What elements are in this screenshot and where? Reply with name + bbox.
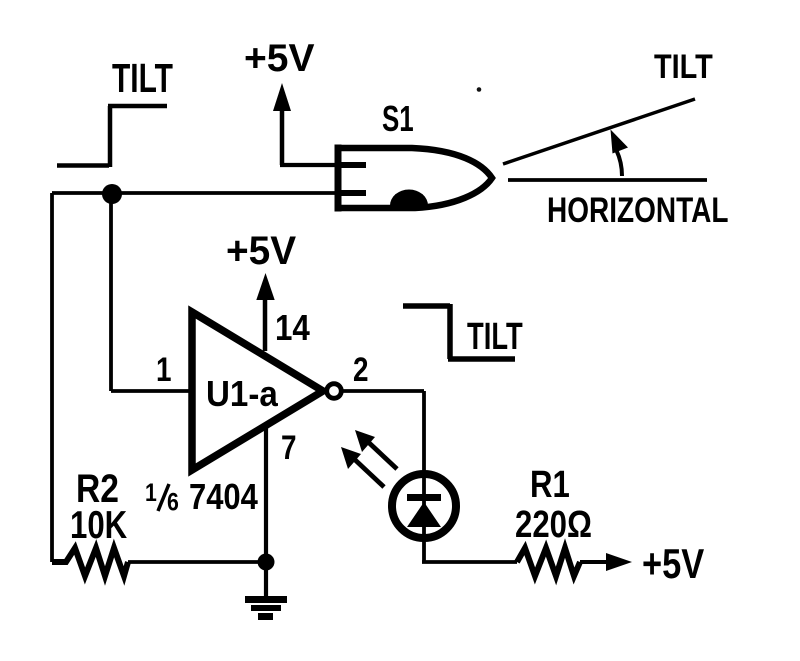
svg-text:TILT: TILT <box>467 316 523 358</box>
label TILT (rising waveform) <box>112 55 173 101</box>
ink speck <box>477 87 482 92</box>
svg-text:2: 2 <box>353 350 369 388</box>
label 1/6 7404 <box>145 478 258 518</box>
label +5V (right) <box>642 541 705 588</box>
horizontal reference line <box>508 178 707 182</box>
label TILT (angle) <box>654 47 713 86</box>
junction dot ground node <box>258 554 275 571</box>
svg-text:7: 7 <box>281 428 297 466</box>
LED wire through <box>422 474 426 538</box>
label S1 <box>382 99 414 139</box>
label HORIZONTAL <box>547 190 728 230</box>
label +5V (S1 supply) <box>244 37 314 80</box>
wire R2 to ground junction <box>128 560 266 564</box>
label TILT (falling waveform) <box>467 316 523 358</box>
wire main node to S1 lower contact <box>52 191 366 195</box>
wire LED bottom to R1 <box>422 536 517 562</box>
pin 1 label <box>156 350 172 388</box>
LED anode triangle <box>407 502 441 527</box>
svg-text:14: 14 <box>275 308 310 349</box>
tilt switch S1 body <box>338 145 492 212</box>
pin 2 label <box>353 350 369 388</box>
svg-text:7404: 7404 <box>189 478 258 518</box>
+5V supply arrow for S1 <box>273 83 291 165</box>
LED light emission arrows <box>341 430 397 487</box>
svg-text:+5V: +5V <box>244 37 314 80</box>
resistor R1 <box>517 548 580 576</box>
label 10K <box>70 504 128 547</box>
inverter U1-a triangle <box>192 312 323 470</box>
svg-text:6: 6 <box>167 488 179 516</box>
wire pin 1 input <box>111 389 192 393</box>
wire left branch down to R2 <box>50 193 54 562</box>
resistor R2 <box>52 548 128 576</box>
+5V arrow right <box>580 553 632 571</box>
tilt reference line <box>503 99 695 164</box>
waveform TILT rising step <box>57 106 167 167</box>
svg-text:1: 1 <box>145 478 157 506</box>
svg-text:1: 1 <box>156 350 172 388</box>
pin 7 label <box>281 428 297 466</box>
pin 14 label <box>275 308 310 349</box>
svg-text:TILT: TILT <box>112 55 173 101</box>
LED cathode bar <box>407 494 441 501</box>
LED D1 body circle <box>392 474 456 538</box>
svg-text:S1: S1 <box>382 99 414 139</box>
label R2 <box>76 466 119 510</box>
svg-text:10K: 10K <box>70 504 128 547</box>
svg-text:U1-a: U1-a <box>206 375 278 415</box>
pin 2 output wire <box>343 391 424 474</box>
wire node A down to pin 1 <box>109 193 113 391</box>
ground symbol <box>245 562 287 617</box>
svg-text:+5V: +5V <box>642 541 705 588</box>
angle arc arrow <box>611 130 629 177</box>
waveform TILT falling step <box>403 304 515 359</box>
label R1 <box>530 464 570 506</box>
svg-text:220Ω: 220Ω <box>515 504 592 546</box>
+5V arrow for pin 14 <box>256 273 274 351</box>
svg-text:HORIZONTAL: HORIZONTAL <box>547 190 728 230</box>
junction node A dot <box>102 184 122 204</box>
label U1-a <box>206 375 278 415</box>
label 220 ohm <box>515 504 592 546</box>
svg-text:R1: R1 <box>530 464 570 506</box>
U1-a output bubble <box>327 384 342 399</box>
label +5V (pin 14) <box>226 228 296 273</box>
svg-text:TILT: TILT <box>654 47 713 86</box>
wire +5V to S1 upper contact <box>280 163 366 167</box>
pin 7 wire <box>264 428 268 562</box>
S1 ball <box>390 190 428 206</box>
svg-text:+5V: +5V <box>226 228 296 273</box>
